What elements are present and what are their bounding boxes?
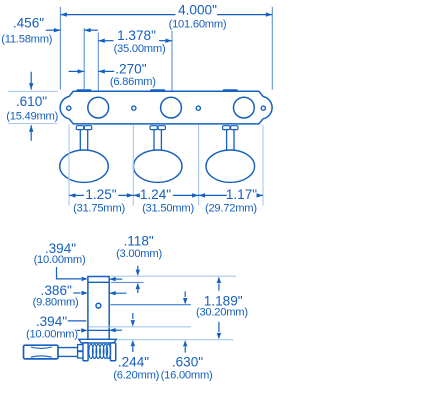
svg-text:(3.00mm): (3.00mm)	[116, 248, 162, 260]
label (6.86mm)	[110, 76, 156, 88]
extension line, post 1 center	[97, 33, 99, 91]
button (oval knob), tuner 1	[60, 150, 109, 182]
washer ridge above plate, tuner 2	[150, 89, 165, 91]
label .610"	[16, 94, 47, 109]
svg-text:.118": .118"	[123, 234, 153, 249]
label (3.00mm)	[116, 248, 162, 260]
screw hole 2	[132, 106, 136, 110]
label 1.378"	[117, 28, 156, 43]
dimension .386"	[73, 291, 126, 296]
svg-text:.456": .456"	[13, 15, 44, 30]
label 1.25"	[85, 187, 116, 202]
extension line, mount plate top	[117, 339, 234, 341]
button (oval knob), tuner 3	[206, 150, 255, 182]
dimension line 4.000" overall	[60, 12, 272, 16]
button (oval knob), tuner 2	[133, 150, 182, 182]
svg-text:1.17": 1.17"	[226, 187, 257, 202]
label (31.75mm)	[73, 202, 125, 214]
svg-text:(16.00mm): (16.00mm)	[161, 370, 213, 382]
dimension line .456"	[46, 28, 98, 32]
svg-text:1.378": 1.378"	[117, 28, 156, 43]
washer under plate, tuner 2	[150, 126, 165, 130]
label .118"	[123, 234, 153, 249]
svg-text:(6.20mm): (6.20mm)	[113, 370, 159, 382]
extension line, plate top edge left	[8, 90, 58, 92]
label .630"	[172, 355, 203, 370]
label 1.17"	[226, 187, 257, 202]
svg-text:.394": .394"	[36, 314, 67, 329]
svg-text:(6.86mm): (6.86mm)	[110, 76, 156, 88]
svg-text:.610": .610"	[16, 94, 47, 109]
label .270"	[115, 62, 146, 77]
button shaft, tuner 1	[80, 130, 87, 152]
extension line, post cap	[111, 281, 144, 283]
label (30.20mm)	[196, 307, 248, 319]
svg-text:(10.00mm): (10.00mm)	[34, 254, 86, 266]
label .386"	[41, 283, 72, 298]
post hole 1	[88, 97, 109, 118]
svg-text:.244": .244"	[118, 354, 149, 369]
label (10.00mm) (top)	[34, 254, 86, 266]
svg-text:.270": .270"	[115, 62, 146, 77]
washer ridge above plate, tuner 3	[223, 89, 238, 91]
screw hole 1	[67, 106, 71, 110]
extension line, collar	[89, 326, 192, 328]
dimension 1.189"	[217, 277, 221, 340]
svg-text:(29.72mm): (29.72mm)	[205, 202, 257, 214]
dimension .394" collar	[68, 321, 122, 333]
extension line, post top	[111, 275, 236, 277]
label (10.00mm) (lower)	[26, 329, 78, 341]
extension line, plate left end	[59, 7, 61, 90]
button shaft (side view)	[58, 348, 78, 357]
dimension line 1.378"	[98, 39, 172, 43]
extension line, plate bottom edge left	[8, 123, 58, 125]
dimension line .270"	[69, 69, 115, 73]
washer under plate, tuner 3	[223, 126, 238, 130]
svg-text:(31.75mm): (31.75mm)	[73, 202, 125, 214]
label .394" (lower)	[36, 314, 67, 329]
dimension .394" post top diameter	[57, 267, 123, 281]
label (16.00mm)	[161, 370, 213, 382]
label (11.58mm)	[1, 34, 53, 46]
post hole 3	[234, 97, 255, 118]
label (15.49mm)	[6, 110, 58, 122]
svg-text:(101.60mm): (101.60mm)	[169, 19, 227, 31]
dimension .118"	[136, 266, 140, 293]
svg-text:1.24": 1.24"	[140, 187, 171, 202]
dimension .244"	[131, 313, 135, 352]
extension line, plate right end	[271, 7, 273, 90]
label (6.20mm)	[113, 370, 159, 382]
label .456"	[13, 15, 44, 30]
svg-text:(11.58mm): (11.58mm)	[1, 34, 53, 46]
extension line, button 1 center	[83, 28, 85, 89]
svg-text:1.25": 1.25"	[85, 187, 116, 202]
svg-text:(10.00mm): (10.00mm)	[26, 329, 78, 341]
gear bracket right	[110, 343, 115, 361]
mount plate (edge view)	[79, 339, 117, 343]
svg-text:(31.50mm): (31.50mm)	[142, 202, 194, 214]
dimension lines button spacing	[69, 193, 263, 197]
gear bracket left	[83, 343, 88, 361]
screw hole 3	[196, 106, 200, 110]
svg-text:4.000": 4.000"	[178, 3, 217, 18]
label (29.72mm)	[205, 202, 257, 214]
washer ridge above plate, tuner 1	[77, 89, 92, 91]
extension line below plate 3	[198, 125, 200, 206]
label .244"	[118, 354, 149, 369]
button (side view)	[24, 345, 59, 359]
svg-text:(30.20mm): (30.20mm)	[196, 307, 248, 319]
button shaft, tuner 2	[154, 130, 161, 152]
svg-text:(15.49mm): (15.49mm)	[6, 110, 58, 122]
label (101.60mm)	[169, 19, 227, 31]
shaft hub	[78, 345, 83, 358]
label .394" (top)	[45, 241, 76, 256]
extension line below plate 1	[68, 125, 70, 206]
label 1.189"	[204, 294, 243, 309]
washer under plate, tuner 1	[76, 126, 91, 130]
dimension line .610"	[29, 72, 33, 141]
label 1.24"	[140, 187, 171, 202]
extension line, post 2 center	[171, 31, 173, 91]
label 4.000"	[178, 3, 217, 18]
label (9.80mm)	[33, 297, 79, 309]
svg-text:.630": .630"	[172, 355, 203, 370]
dimension .630"	[183, 291, 187, 352]
label (35.00mm)	[114, 43, 166, 55]
post cap line	[88, 281, 109, 283]
post collar line	[88, 329, 109, 331]
svg-text:(9.80mm): (9.80mm)	[33, 297, 79, 309]
string hole	[96, 303, 101, 308]
label (31.50mm)	[142, 202, 194, 214]
worm gear	[89, 344, 111, 358]
svg-text:(35.00mm): (35.00mm)	[114, 43, 166, 55]
extension line below plate 2	[132, 125, 134, 206]
tuner plate outline (top view)	[60, 91, 272, 124]
post hole 2	[161, 97, 182, 118]
extension line below plate 4	[262, 125, 264, 206]
extension line, string hole center	[111, 304, 191, 306]
string post (side view)	[88, 277, 109, 340]
screw hole 4	[261, 106, 265, 110]
button shaft, tuner 3	[227, 130, 234, 152]
